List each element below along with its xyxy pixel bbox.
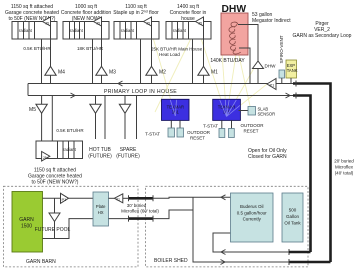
svg-text:18K BTU/HR: 18K BTU/HR <box>77 46 104 51</box>
building GARN barn dashed <box>4 186 139 267</box>
node zone 1 label <box>5 4 59 22</box>
sensor t-stat 2 <box>203 124 225 138</box>
mixing valve V4 <box>196 17 204 26</box>
node zone 3 label <box>113 4 159 16</box>
node flow arrow right on bottom line <box>71 93 76 98</box>
radiant manifold zone 1 <box>12 22 57 40</box>
wire boiler return line <box>213 233 311 255</box>
label 53 gallon Megastor Indirect <box>252 12 291 24</box>
svg-text:T-STAT: T-STAT <box>203 124 218 129</box>
valve hot tub future <box>88 96 112 160</box>
svg-text:Plate: Plate <box>96 204 106 209</box>
node arrow left on shed supply <box>221 195 226 200</box>
svg-text:Gallon: Gallon <box>286 214 300 219</box>
node arrow left on boiler return <box>221 250 226 255</box>
svg-text:01: 01 <box>116 197 120 201</box>
svg-text:RESET: RESET <box>190 136 205 141</box>
svg-text:SENSOR: SENSOR <box>258 112 276 117</box>
wire zone1 pipes to pump <box>42 26 51 84</box>
mixing valve garage <box>42 152 50 162</box>
wire yellow control wires from controllers <box>150 26 267 117</box>
radiant manifold zone 4 <box>166 22 211 40</box>
mixing valve V3 <box>144 17 152 26</box>
controller tekmar U1 <box>162 99 190 128</box>
wire HX to microflex upper <box>109 197 129 199</box>
label Pirger VER_2 <box>293 21 352 39</box>
wire shed supply downcomer <box>193 197 289 262</box>
svg-text:GARN: GARN <box>19 217 34 223</box>
svg-text:radiant: radiant <box>19 28 33 33</box>
svg-text:HX: HX <box>98 210 104 215</box>
svg-text:radiant: radiant <box>173 28 187 33</box>
sensor outdoor reset 2 <box>229 123 265 138</box>
svg-text:P1: P1 <box>270 83 276 88</box>
mixing valve V2 <box>94 17 102 26</box>
svg-text:radiant: radiant <box>63 147 77 152</box>
tank 500 gallon oil <box>282 193 303 242</box>
valve spare future <box>116 96 140 160</box>
wire zone3 pipes to pump <box>141 26 152 84</box>
svg-text:25: 25 <box>43 156 47 160</box>
pump P1 barn <box>61 193 69 203</box>
wire zone4 pipes to pump <box>193 26 204 84</box>
wire barn return line <box>43 219 94 239</box>
sensor outdoor reset 1 <box>177 128 211 141</box>
svg-text:20' buried: 20' buried <box>334 159 354 164</box>
svg-text:Microflex: Microflex <box>335 165 354 170</box>
svg-text:25: 25 <box>46 22 50 26</box>
svg-text:M5: M5 <box>29 107 36 113</box>
svg-text:FUTURE POOL: FUTURE POOL <box>35 227 71 233</box>
tank GARN 1500 <box>12 192 43 253</box>
svg-text:GARN as Secondary Loop: GARN as Secondary Loop <box>293 33 352 39</box>
svg-text:TANK: TANK <box>287 68 298 73</box>
svg-text:to 50F (NEW NOW?): to 50F (NEW NOW?) <box>32 180 79 186</box>
mixing valve V1 <box>43 17 51 26</box>
svg-text:25K BTU/HR Main House: 25K BTU/HR Main House <box>151 47 203 52</box>
svg-text:OUTDOOR: OUTDOOR <box>187 130 211 135</box>
label 25K BTU/HR Main House Heat Load <box>151 47 203 58</box>
pump M1 <box>198 66 218 75</box>
pump barn loop <box>114 194 123 203</box>
node arrow right on shed bottom <box>221 260 226 265</box>
pump DHW <box>253 61 277 69</box>
wire controller fan streaks <box>170 100 240 117</box>
pump P1 house <box>267 79 276 90</box>
pump M2 <box>146 66 166 75</box>
svg-text:BOILER SHED: BOILER SHED <box>154 258 188 264</box>
wire zone2 pipes to pump <box>93 26 102 84</box>
pump M4 <box>45 66 65 75</box>
svg-text:RESET: RESET <box>244 129 259 134</box>
valve future pool <box>35 198 71 238</box>
wire microflex upper run <box>129 195 231 201</box>
sensor t-stat 1 <box>145 128 174 137</box>
pump M3 <box>96 66 116 75</box>
radiant manifold garage <box>36 141 83 159</box>
label 30' buried microflex <box>121 203 159 213</box>
svg-text:Staple up in 2nd floor: Staple up in 2nd floor <box>113 10 159 17</box>
svg-text:0.5 gallon/hour: 0.5 gallon/hour <box>237 210 267 215</box>
building boiler shed dashed <box>146 186 309 267</box>
svg-text:25: 25 <box>199 22 203 26</box>
svg-text:M4: M4 <box>58 70 65 76</box>
radiant manifold zone 2 <box>63 22 109 40</box>
svg-text:HOT TUB: HOT TUB <box>89 147 111 153</box>
svg-text:500: 500 <box>289 208 297 213</box>
svg-text:(FUTURE): (FUTURE) <box>116 154 140 160</box>
svg-text:25: 25 <box>147 22 151 26</box>
expansion tank <box>286 60 298 84</box>
svg-text:PRIMARY LOOP IN HOUSE: PRIMARY LOOP IN HOUSE <box>104 89 177 95</box>
svg-text:Closed for GARN: Closed for GARN <box>248 154 287 160</box>
sensor slab sensor <box>239 107 276 117</box>
svg-text:Buderus Oil: Buderus Oil <box>240 204 264 209</box>
svg-text:0.5K BTU/HR: 0.5K BTU/HR <box>23 46 51 51</box>
svg-text:140K BTU/DAY: 140K BTU/DAY <box>210 58 245 64</box>
svg-text:Megastor Indirect: Megastor Indirect <box>252 18 291 24</box>
svg-text:M1: M1 <box>211 70 218 76</box>
svg-text:(40' total): (40' total) <box>335 171 354 176</box>
node zone 4 label <box>170 4 207 22</box>
svg-text:SPARE: SPARE <box>120 147 137 153</box>
svg-text:Heat Load: Heat Load <box>159 52 180 57</box>
svg-text:25: 25 <box>97 22 101 26</box>
svg-text:1500: 1500 <box>21 224 32 230</box>
node flow arrow left on top line <box>118 81 123 86</box>
label garage zone <box>28 168 82 186</box>
label open for oil only <box>248 148 287 160</box>
svg-text:(FUTURE): (FUTURE) <box>88 154 112 160</box>
svg-text:radiant: radiant <box>70 28 84 33</box>
svg-text:SPIRO-VENT: SPIRO-VENT <box>279 35 284 63</box>
svg-text:T-STAT: T-STAT <box>145 132 160 137</box>
svg-text:DHW: DHW <box>265 64 277 69</box>
controller tekmar U2 <box>213 99 241 128</box>
spirovent air separator <box>279 70 285 84</box>
node flow arrow right2 on bottom line <box>286 93 291 98</box>
svg-text:Microflex (60' total): Microflex (60' total) <box>121 208 159 213</box>
svg-text:M3: M3 <box>109 70 116 76</box>
svg-text:radiant: radiant <box>121 28 135 33</box>
wire house return thick pipe <box>293 93 311 253</box>
radiant manifold zone 3 <box>114 22 159 40</box>
wire barn supply line <box>43 197 94 199</box>
wire DHW coil piping <box>238 25 258 84</box>
boiler Buderus Oil <box>231 193 274 242</box>
tank DHW indirect tank <box>221 13 248 55</box>
wire primary loop <box>28 84 293 96</box>
wire shed bottom thick to house supply <box>289 259 331 265</box>
svg-text:Oil Tank: Oil Tank <box>284 221 301 226</box>
svg-text:OUTDOOR: OUTDOOR <box>241 123 265 128</box>
svg-text:GARN BARN: GARN BARN <box>26 259 56 265</box>
label 20' buried Microflex <box>334 159 354 176</box>
svg-text:P1: P1 <box>62 197 68 202</box>
heat exchanger plate HX <box>93 192 109 226</box>
node zone 2 label <box>61 4 112 22</box>
svg-text:Currently: Currently <box>243 217 262 222</box>
wire microflex lower run <box>109 210 194 222</box>
pump M5 <box>29 96 52 152</box>
svg-text:0.5K BTU/HR: 0.5K BTU/HR <box>56 128 84 133</box>
wire house supply thick pipe <box>293 81 331 263</box>
svg-text:M2: M2 <box>159 70 166 76</box>
